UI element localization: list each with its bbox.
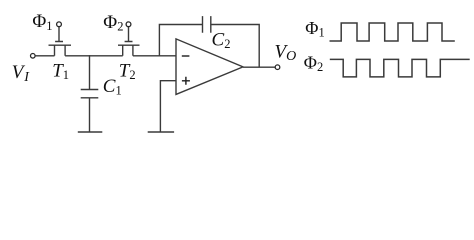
ground under C1	[78, 131, 103, 133]
feedback wire up from inverting input	[159, 25, 202, 56]
gate terminal T1	[57, 22, 62, 27]
wire T1 to T2	[65, 55, 123, 57]
output terminal VO	[275, 65, 280, 70]
phi2 clock waveform	[330, 59, 470, 77]
svg-text:C2: C2	[212, 29, 231, 51]
op-amp U1	[176, 39, 243, 95]
transistor T2	[118, 27, 140, 56]
svg-text:Φ2: Φ2	[103, 12, 123, 34]
svg-text:Φ1: Φ1	[305, 18, 324, 40]
phi1 clock waveform	[330, 23, 455, 41]
svg-text:VI: VI	[12, 62, 30, 85]
feedback wire down to output	[211, 25, 259, 68]
wire input to T1	[35, 55, 54, 57]
capacitor C1	[81, 55, 99, 132]
input terminal VI	[31, 54, 36, 59]
wire T2 to op-amp inverting input	[133, 55, 176, 57]
wire noninverting input to ground	[160, 81, 176, 132]
svg-text:Φ2: Φ2	[304, 52, 323, 74]
svg-text:T1: T1	[52, 60, 69, 82]
ground at op-amp noninverting input	[148, 131, 174, 133]
svg-text:T2: T2	[119, 60, 136, 82]
svg-text:Φ1: Φ1	[32, 11, 52, 33]
svg-text:VO: VO	[275, 42, 297, 64]
output wire	[243, 66, 275, 68]
capacitor C2	[203, 16, 211, 33]
transistor T1	[49, 27, 72, 56]
gate terminal T2	[126, 22, 131, 27]
